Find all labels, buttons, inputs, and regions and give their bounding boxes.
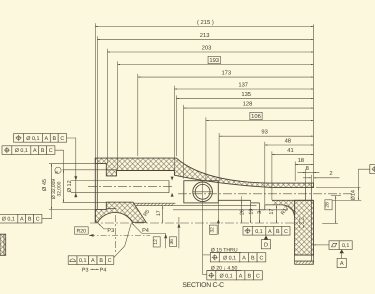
dim 28 ext bottom: [322, 222, 338, 224]
left face outer vertical: [94, 158, 96, 222]
dia14 ext bottom: [329, 199, 361, 201]
svg-text:R20: R20: [77, 229, 87, 235]
dim 203 line: [107, 51, 313, 53]
dia12 dim line: [75, 175, 77, 197]
leader from flatness FCF to flange face: [314, 244, 330, 246]
dim ( 215 ) line: [95, 26, 313, 28]
dim 135 extension line: [175, 95, 177, 156]
hidden hole edge below boss: [217, 203, 219, 234]
boxed 32 on P-line: [210, 225, 218, 234]
dim 48 line: [265, 144, 314, 146]
leader up to cut frame: [358, 169, 369, 187]
dia45 dim line: [51, 164, 53, 210]
svg-text:Ø 12: Ø 12: [67, 180, 73, 192]
bore 12 top line: [71, 180, 169, 182]
R12 leader arrow: [290, 209, 297, 212]
svg-text:C: C: [60, 136, 64, 142]
svg-text:E: E: [54, 171, 59, 174]
left bore centerline: [88, 185, 174, 187]
svg-text:C: C: [256, 274, 260, 280]
dim 213 line: [97, 38, 313, 40]
dim 128 line: [184, 107, 314, 109]
datum A box: [337, 258, 346, 267]
P3 leader: [98, 224, 107, 229]
leader vertical from hole: [202, 203, 204, 275]
long inner shelf line: [173, 209, 288, 211]
svg-text:0,1: 0,1: [79, 258, 87, 264]
svg-text:B: B: [276, 229, 280, 235]
sliver top line: [133, 202, 176, 204]
datum A triangle and stem: [340, 250, 344, 254]
dim 48 extension line: [264, 142, 266, 205]
FCF flatness 0,1 (right): [329, 241, 339, 250]
R12 fillet into flange: [282, 205, 294, 217]
svg-text:P3: P3: [107, 228, 114, 234]
dim 213 extension line: [96, 36, 98, 163]
svg-text:Ø 45: Ø 45: [42, 179, 48, 191]
svg-text:A: A: [91, 258, 95, 264]
hole vertical centermark: [202, 181, 204, 203]
svg-text:SECTION C-C: SECTION C-C: [182, 282, 224, 289]
step block division bottom: [106, 208, 116, 210]
svg-text:28: 28: [325, 202, 331, 208]
dim 106 extension line: [205, 117, 207, 180]
svg-text:A: A: [20, 217, 24, 223]
svg-text:B: B: [52, 136, 56, 142]
leader from left FCF to dia45 dim: [42, 209, 52, 218]
svg-text:Ø14: Ø14: [350, 190, 356, 200]
FCF for dia20: [207, 271, 216, 280]
svg-text:C: C: [36, 217, 40, 223]
svg-text:48: 48: [285, 137, 291, 144]
svg-text:213: 213: [200, 32, 210, 39]
svg-text:C: C: [259, 256, 263, 262]
svg-text:137: 137: [238, 81, 248, 88]
bore 12 inside arrows: [171, 177, 174, 181]
svg-text:2: 2: [329, 170, 332, 177]
svg-text:18: 18: [298, 157, 304, 164]
svg-text:A: A: [268, 229, 272, 235]
datum D box: [261, 240, 270, 249]
dim 41 extension line: [271, 151, 273, 200]
dim 137 extension line: [173, 86, 175, 174]
svg-text:B: B: [99, 258, 103, 264]
svg-text:3: 3: [257, 211, 263, 214]
svg-text:( 215 ): ( 215 ): [197, 19, 214, 26]
svg-text:12: 12: [153, 239, 159, 245]
datum D triangle: [264, 235, 268, 239]
dim 173 extension line: [137, 74, 139, 156]
svg-text:A: A: [239, 274, 243, 280]
FCF for dia15: [210, 253, 219, 262]
bore line 14 bottom: [272, 199, 314, 201]
R20 boxed label: [75, 227, 89, 234]
dim 26 vertical: [241, 201, 243, 223]
FCF position 0,1 A B C (mid, datum D holder): [243, 227, 252, 236]
svg-text:C: C: [49, 148, 53, 154]
dim 3 vertical: [259, 210, 261, 223]
svg-text:P4: P4: [142, 228, 149, 234]
svg-text:173: 173: [221, 70, 231, 77]
dim 19 vertical: [250, 203, 252, 223]
svg-text:P3: P3: [82, 267, 89, 273]
FCF position dia 0,1 A B C (upper, for dia12): [14, 134, 24, 143]
dim 173 line: [138, 76, 314, 78]
svg-text:193: 193: [209, 57, 219, 64]
dim 106 line: [206, 120, 314, 122]
hole circle outer (counterbore 20): [193, 182, 213, 202]
dim 193 extension line: [117, 61, 119, 170]
svg-text:C: C: [108, 258, 112, 264]
dim 17 right vertical: [275, 205, 277, 223]
svg-text:Ø 0,1: Ø 0,1: [219, 274, 232, 280]
dim 8 extension: [305, 169, 307, 187]
svg-text:32: 32: [209, 227, 215, 233]
bottom edge to fillet: [265, 204, 283, 206]
svg-text:0,1: 0,1: [255, 229, 263, 235]
svg-text:A: A: [340, 261, 344, 267]
left face step vertical: [96, 164, 98, 210]
boss lower line: [175, 204, 257, 206]
P-hole axis dash line with arrow: [89, 234, 150, 236]
dim 26 ext: [241, 196, 243, 200]
dim 18 extension line: [294, 161, 296, 181]
dia32 ext top: [63, 169, 114, 171]
svg-text:106: 106: [251, 113, 261, 120]
vertical from P-line down: [178, 217, 180, 248]
flange counterbore step: [305, 188, 307, 201]
small boxed dim left: [153, 237, 160, 247]
dim 17 left vertical: [162, 206, 164, 223]
sliver bottom line: [136, 205, 175, 207]
svg-text:Ø 0,1: Ø 0,1: [15, 148, 28, 154]
svg-text:135: 135: [241, 91, 251, 98]
dim 41 line: [272, 154, 314, 156]
svg-text:Ø 0,1: Ø 0,1: [2, 217, 15, 223]
right bore centerline: [178, 193, 353, 195]
svg-text:Ø 0,1: Ø 0,1: [223, 256, 236, 262]
dim 93 extension line: [218, 133, 220, 181]
svg-text:203: 203: [202, 44, 212, 51]
dim 2 extension: [310, 175, 312, 183]
dim 203 extension line: [106, 49, 108, 164]
svg-text:128: 128: [243, 101, 253, 108]
dia45 ext top: [49, 163, 98, 165]
dia14 dim line: [357, 188, 359, 201]
svg-text:0,1: 0,1: [342, 243, 350, 249]
leader from profile FCF up to arc feature: [114, 224, 131, 258]
hole circle inner (15 thru): [195, 184, 210, 199]
dim 137 line: [174, 88, 313, 90]
hatched top wall of part: [95, 158, 313, 188]
dim 28 line: [335, 196, 337, 224]
svg-text:17: 17: [269, 209, 275, 215]
cut-off FCF at right edge: [370, 165, 375, 174]
small boxed dim right: [170, 237, 177, 247]
svg-text:Ø 0,1: Ø 0,1: [26, 136, 39, 142]
hidden hole dashes in flange: [298, 218, 300, 229]
svg-text:36: 36: [169, 239, 175, 245]
svg-text:8: 8: [306, 165, 309, 172]
svg-text:26: 26: [240, 209, 246, 215]
dim 193 line: [118, 64, 314, 66]
dim 28 boxed label: [325, 200, 332, 210]
thin bottom strip left of flange: [272, 200, 295, 217]
svg-text:19: 19: [248, 209, 254, 215]
hatched bottom-left wall with R20 arc notch: [95, 202, 146, 222]
leader from upper FCF to dia12 dim: [67, 138, 76, 176]
svg-text:B: B: [28, 217, 32, 223]
svg-text:93: 93: [261, 129, 267, 136]
svg-text:B: B: [247, 274, 251, 280]
dim 93 line: [219, 135, 313, 137]
dia45 ext bottom: [49, 208, 98, 210]
hole boss rectangle: [184, 181, 219, 203]
flange step inner vertical: [310, 183, 312, 261]
leader from second FCF to dia32 dim: [55, 150, 64, 170]
svg-text:P4: P4: [100, 267, 107, 273]
flange bottom lip with ticks: [296, 261, 315, 264]
flange groove band: [295, 255, 314, 261]
step block division top: [106, 169, 116, 171]
bottom mid profile lines: [218, 199, 250, 201]
svg-text:A: A: [45, 136, 49, 142]
svg-text:17: 17: [156, 210, 162, 216]
svg-text:A: A: [242, 256, 246, 262]
dim 135 line: [176, 98, 313, 100]
FCF position dia 0,1 A B C (second, for dia32): [2, 146, 12, 155]
svg-text:41: 41: [287, 148, 293, 154]
up arrow on hidden hole vertical: [217, 219, 220, 223]
svg-text:32,000: 32,000: [57, 181, 63, 196]
svg-text:B: B: [251, 256, 255, 262]
dia32 dim line: [63, 170, 65, 203]
svg-text:A: A: [33, 148, 37, 154]
left edge fragment of adjacent view: [0, 234, 6, 255]
arc vertical centerline: [114, 215, 116, 253]
dim 18 line: [295, 164, 313, 166]
bore 12 end vertical: [168, 181, 170, 193]
dim ( 215 ) extension line: [94, 23, 96, 158]
svg-text:D: D: [264, 242, 268, 248]
P-hole centerline: [90, 222, 302, 224]
vertical from P4 shoulder down: [165, 234, 167, 249]
dim 8 (outside arrows): [298, 172, 306, 174]
dim 28 ext top: [331, 195, 341, 197]
P4 leader to arc: [132, 223, 142, 233]
svg-text:B: B: [41, 148, 45, 154]
flange lower hatched block: [295, 200, 314, 255]
P4 shoulder line: [142, 233, 166, 235]
svg-text:Ø 32,009: Ø 32,009: [51, 179, 57, 199]
right common extension line: [313, 24, 315, 183]
dia14 ext top: [316, 187, 361, 189]
thin sliver hatch ticks: [137, 203, 174, 206]
hole horizontal centermark: [193, 191, 212, 193]
E envelope symbol: [55, 167, 61, 173]
dim 2 (outside arrows): [303, 177, 311, 179]
svg-text:C: C: [284, 229, 288, 235]
bore 12 bottom line: [71, 192, 169, 194]
FCF profile 0,1 A B C (bottom left): [68, 256, 77, 265]
dia32 ext bottom: [63, 201, 110, 203]
dim 128 extension line: [183, 105, 185, 179]
